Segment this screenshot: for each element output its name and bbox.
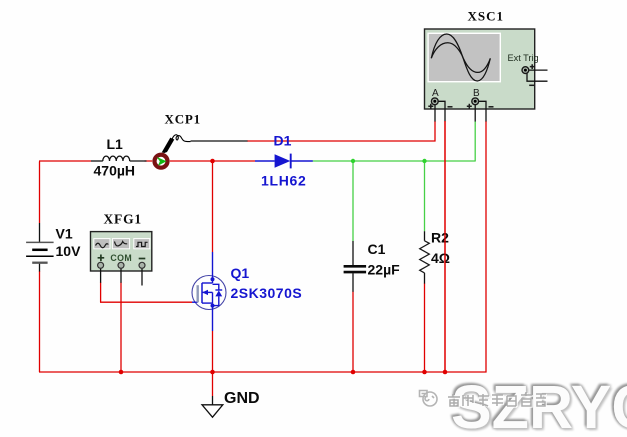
svg-text:XSC1: XSC1: [468, 9, 505, 24]
svg-text:470µH: 470µH: [94, 163, 136, 179]
svg-text:4Ω: 4Ω: [431, 250, 450, 266]
svg-text:Ext Trig: Ext Trig: [508, 53, 539, 63]
svg-text:Q1: Q1: [231, 265, 250, 281]
svg-text:R2: R2: [431, 230, 449, 246]
svg-text:L1: L1: [107, 136, 124, 152]
svg-text:10V: 10V: [56, 243, 82, 259]
svg-text:D1: D1: [274, 133, 292, 149]
svg-text:B: B: [473, 88, 480, 99]
svg-text:22µF: 22µF: [368, 262, 401, 278]
svg-text:COM: COM: [110, 253, 132, 263]
svg-text:XFG1: XFG1: [104, 212, 142, 227]
svg-text:C1: C1: [368, 241, 386, 257]
svg-text:1LH62: 1LH62: [261, 173, 307, 189]
svg-text:2SK3070S: 2SK3070S: [231, 285, 303, 301]
svg-text:V1: V1: [56, 226, 73, 242]
svg-text:GND: GND: [224, 390, 260, 407]
svg-text:XCP1: XCP1: [165, 112, 201, 127]
